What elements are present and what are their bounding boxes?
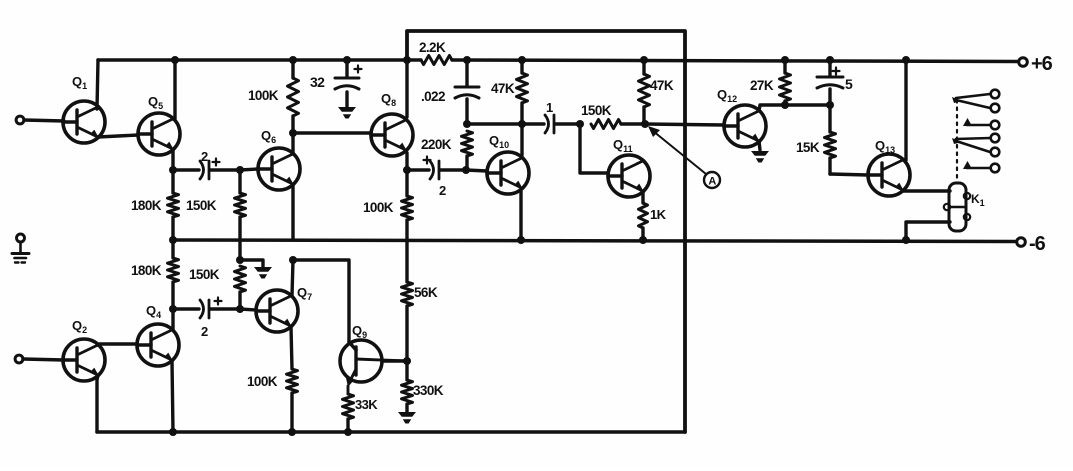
- junction Q13 collector rail: [902, 56, 910, 64]
- wire Q2 emitter to bottom: [97, 375, 98, 432]
- resistor 1K: [639, 203, 667, 228]
- svg-text:220K: 220K: [421, 137, 452, 152]
- capacitor .022: [421, 87, 479, 104]
- resistor 47K first: [491, 73, 528, 103]
- svg-text:330K: 330K: [413, 383, 444, 398]
- junction Q9 collector node: [403, 357, 411, 365]
- wire 220K lower lead: [465, 156, 468, 170]
- wire 100K mid leads: [405, 170, 408, 240]
- wire Q13 emitter to relay: [903, 189, 950, 192]
- junction Q4 emitter bottom: [169, 428, 177, 436]
- svg-text:1K: 1K: [650, 207, 667, 222]
- wire Q6 collector to Q8 base: [293, 131, 371, 134]
- wire node to Q6 base: [240, 169, 258, 170]
- junction 150K-h left: [576, 120, 584, 128]
- wire relay to -6 rail: [906, 222, 950, 240]
- resistor 47K second: [639, 74, 674, 107]
- wire Q12 emitter: [759, 141, 760, 150]
- wire to cap 2 upper: [173, 168, 199, 171]
- transistor Q8: [371, 114, 413, 156]
- wire 47K-2 leads: [642, 60, 645, 124]
- resistor 56K: [402, 282, 438, 306]
- svg-text:100K: 100K: [247, 374, 278, 389]
- junction cap5 rail: [826, 56, 834, 64]
- junction Q7 base node: [236, 305, 244, 313]
- wire collector line: [467, 122, 544, 125]
- svg-text:33K: 33K: [355, 397, 378, 412]
- junction Q8 emitter node: [403, 166, 411, 174]
- resistor 150K lower: [189, 266, 246, 292]
- wire 56K leads: [405, 240, 408, 361]
- capacitor 2 upper: [200, 149, 220, 179]
- junction rail left end: [169, 236, 177, 244]
- svg-text:15K: 15K: [796, 140, 820, 155]
- wire Q13 collector: [904, 60, 907, 160]
- transistor Q9: [340, 340, 406, 394]
- svg-text:100K: 100K: [363, 200, 394, 215]
- wire 1K lower lead: [641, 228, 644, 240]
- relay K1 coil: [944, 183, 970, 231]
- svg-text:150K: 150K: [581, 103, 612, 118]
- resistor 150K horizontal: [581, 103, 621, 129]
- transistor Q13: [868, 154, 910, 196]
- wire 150K-h right: [621, 122, 645, 125]
- label Q12: [717, 87, 737, 104]
- svg-text:2.2K: 2.2K: [419, 40, 446, 55]
- junction 1K rail: [639, 236, 647, 244]
- junction rail/Q5 collector: [171, 56, 179, 64]
- wire Q12 collector: [759, 105, 830, 111]
- svg-text:-6: -6: [1029, 233, 1046, 255]
- label Q4: [146, 303, 161, 320]
- wire node to Q7 base: [240, 309, 256, 310]
- wire 100K leads: [291, 60, 294, 133]
- wire 32 cap to ground: [345, 92, 348, 107]
- resistor 180K upper: [131, 193, 179, 217]
- wire +6 rail right segment: [452, 60, 1018, 62]
- svg-text:180K: 180K: [131, 263, 162, 278]
- node A circle: [704, 172, 720, 188]
- wire Q7 collector to Q9 base: [293, 260, 349, 342]
- resistor 100K mid: [363, 196, 413, 220]
- wire cap 2 mid to node: [440, 168, 466, 171]
- wire Q7 collector: [292, 260, 293, 296]
- wire node to Q12 base: [645, 124, 724, 125]
- wire cap 2 lower to node: [210, 307, 240, 310]
- capacitor 5: [817, 68, 853, 93]
- label K1: [971, 192, 985, 208]
- junction 47K-1 rail: [518, 56, 526, 64]
- wire 47K-1 leads: [520, 60, 523, 155]
- junction 100K bottom: [288, 428, 296, 436]
- wire Q9 collector: [382, 359, 407, 362]
- chassis ground symbol: [12, 234, 29, 263]
- junction 47K-2 rail: [640, 56, 648, 64]
- wire rail to 32 cap: [345, 60, 348, 77]
- wire rail to .022: [465, 60, 468, 86]
- wire -6 rail: [173, 240, 1016, 242]
- svg-text:A: A: [708, 176, 716, 188]
- svg-text:2: 2: [201, 324, 208, 339]
- resistor 180K lower: [131, 258, 179, 282]
- wire cap 2 upper to node: [210, 168, 240, 171]
- junction Q6 collector node: [289, 129, 297, 137]
- svg-text:56K: 56K: [414, 285, 438, 300]
- wire Q8 collector: [405, 60, 408, 117]
- junction ground tap: [236, 256, 244, 264]
- wire 15K leads: [828, 105, 831, 174]
- transistor Q7: [256, 290, 298, 332]
- wire Q4 collector: [171, 309, 174, 330]
- wire Q4 collector node to cap: [173, 307, 199, 310]
- wire .022 to node: [465, 99, 468, 124]
- junction .022/220K node: [463, 120, 471, 128]
- junction rail/box: [403, 56, 411, 64]
- ground Q12 emitter: [751, 151, 769, 163]
- resistor 100K lower: [247, 369, 298, 393]
- transistor Q6: [258, 148, 300, 190]
- transistor Q4: [137, 324, 179, 366]
- junction 27K rail: [781, 56, 789, 64]
- terminal input 2: [15, 355, 23, 363]
- ground below 32 cap: [338, 107, 356, 119]
- wire bottom return: [97, 430, 685, 434]
- junction Q10 emitter rail: [517, 236, 525, 244]
- resistor 2.2K: [419, 40, 452, 65]
- wire Q6 emitter: [291, 185, 294, 240]
- svg-text:150K: 150K: [186, 198, 217, 213]
- label Q9: [352, 323, 367, 340]
- svg-text:32: 32: [310, 74, 325, 90]
- label Q10: [489, 133, 509, 150]
- wire cap1 to node: [555, 122, 580, 125]
- junction Q4 collector node: [169, 305, 177, 313]
- wire 33K lower lead: [346, 419, 349, 432]
- junction relay rail: [902, 236, 910, 244]
- wire to cap 2 mid: [407, 168, 429, 171]
- wire cap5 to node: [828, 89, 831, 105]
- capacitor 2 lower: [200, 298, 222, 340]
- label Q7: [297, 285, 312, 302]
- wire 27K leads: [783, 60, 786, 105]
- wire input2 to Q2 base: [23, 359, 64, 360]
- junction cap5/15K node: [826, 101, 834, 109]
- wire +6 rail left segment: [98, 58, 421, 62]
- ground below 330K: [398, 412, 416, 424]
- terminal +6: [1019, 53, 1053, 75]
- svg-text:2: 2: [439, 183, 446, 198]
- resistor 150K upper: [186, 193, 246, 217]
- junction 150K upper top: [236, 166, 244, 174]
- junction Q5 emitter node: [169, 166, 177, 174]
- resistor 27K: [750, 73, 791, 101]
- resistor 330K: [402, 380, 444, 404]
- wire Q11 base L: [580, 124, 608, 173]
- svg-text:.022: .022: [421, 89, 445, 104]
- ground near 150K: [254, 267, 272, 279]
- wire Q6 collector: [291, 133, 294, 154]
- resistor 220K: [421, 131, 473, 156]
- wire 150K upper leads: [238, 170, 241, 260]
- label Q8: [381, 91, 396, 108]
- label Q13: [875, 138, 895, 155]
- svg-text:150K: 150K: [189, 267, 220, 282]
- label Q5: [148, 94, 163, 111]
- wire rail to cap5: [828, 60, 831, 76]
- resistor 100K top-left: [248, 78, 299, 116]
- wire Q8 emitter down: [405, 153, 408, 170]
- label Q2: [72, 318, 87, 335]
- svg-text:47K: 47K: [650, 78, 674, 93]
- junction Q11 collector node: [641, 120, 649, 128]
- wire Q5 collector: [173, 60, 176, 119]
- junction Q10 collector node: [518, 120, 526, 128]
- wire relay coil dotted link: [956, 100, 958, 183]
- resistor 15K: [796, 132, 836, 158]
- transistor Q1: [63, 101, 105, 143]
- wire Q7 emitter: [291, 327, 292, 369]
- transistor Q5: [138, 113, 180, 155]
- wire 330K leads: [405, 361, 408, 412]
- junction 32 cap rail: [343, 56, 351, 64]
- wire 180K upper leads: [171, 170, 174, 240]
- capacitor 32: [310, 66, 362, 91]
- junction 27K bottom: [781, 101, 789, 109]
- relay contacts pole 1: [952, 90, 999, 130]
- terminal -6: [1017, 233, 1046, 255]
- wire 180K lower leads: [171, 240, 174, 309]
- wire ground tap: [240, 260, 263, 267]
- transistor Q11: [608, 155, 650, 197]
- junction 100K top rail: [289, 56, 297, 64]
- wire Q4 emitter: [172, 361, 173, 432]
- label Q1: [72, 74, 87, 91]
- wire Q10 emitter: [519, 191, 522, 240]
- svg-text:5: 5: [845, 76, 853, 92]
- label Q6: [261, 128, 276, 145]
- svg-text:2: 2: [201, 149, 208, 164]
- wire 150K lower leads: [238, 292, 241, 309]
- wire Q2 collector to Q4 base: [98, 344, 137, 345]
- wire input1 to Q1 base: [24, 120, 64, 121]
- resistor 33K: [343, 394, 379, 419]
- junction Q7 collector node: [289, 256, 297, 264]
- wire 15K to Q13 base: [830, 174, 868, 175]
- wire Q5 emitter down: [171, 150, 174, 170]
- callout arrow to node A: [648, 126, 706, 174]
- relay contacts pole 2: [952, 134, 999, 173]
- transistor Q2: [63, 339, 105, 381]
- svg-text:+6: +6: [1031, 53, 1053, 75]
- wire Q1 emitter to Q5 base: [98, 135, 138, 137]
- wire node to Q10 base: [466, 170, 487, 171]
- svg-text:27K: 27K: [750, 78, 774, 93]
- junction .022 rail: [463, 56, 471, 64]
- svg-text:1: 1: [546, 100, 553, 115]
- capacitor 1: [545, 100, 554, 133]
- label Q11: [613, 137, 633, 154]
- svg-text:180K: 180K: [131, 198, 162, 213]
- svg-text:47K: 47K: [491, 81, 515, 96]
- terminal input 1: [16, 116, 24, 124]
- wire Q11 emitter: [641, 192, 644, 203]
- junction 33K bottom: [344, 428, 352, 436]
- wire Q1 collector to rail: [97, 60, 98, 109]
- wire feedback loop (top/right): [407, 31, 685, 432]
- wire 100K lower lead: [290, 393, 293, 432]
- transistor Q10: [487, 152, 529, 194]
- junction Q10 base node: [462, 166, 470, 174]
- svg-text:100K: 100K: [248, 88, 279, 103]
- capacitor 2 mid: [424, 157, 447, 199]
- transistor Q12: [724, 105, 766, 147]
